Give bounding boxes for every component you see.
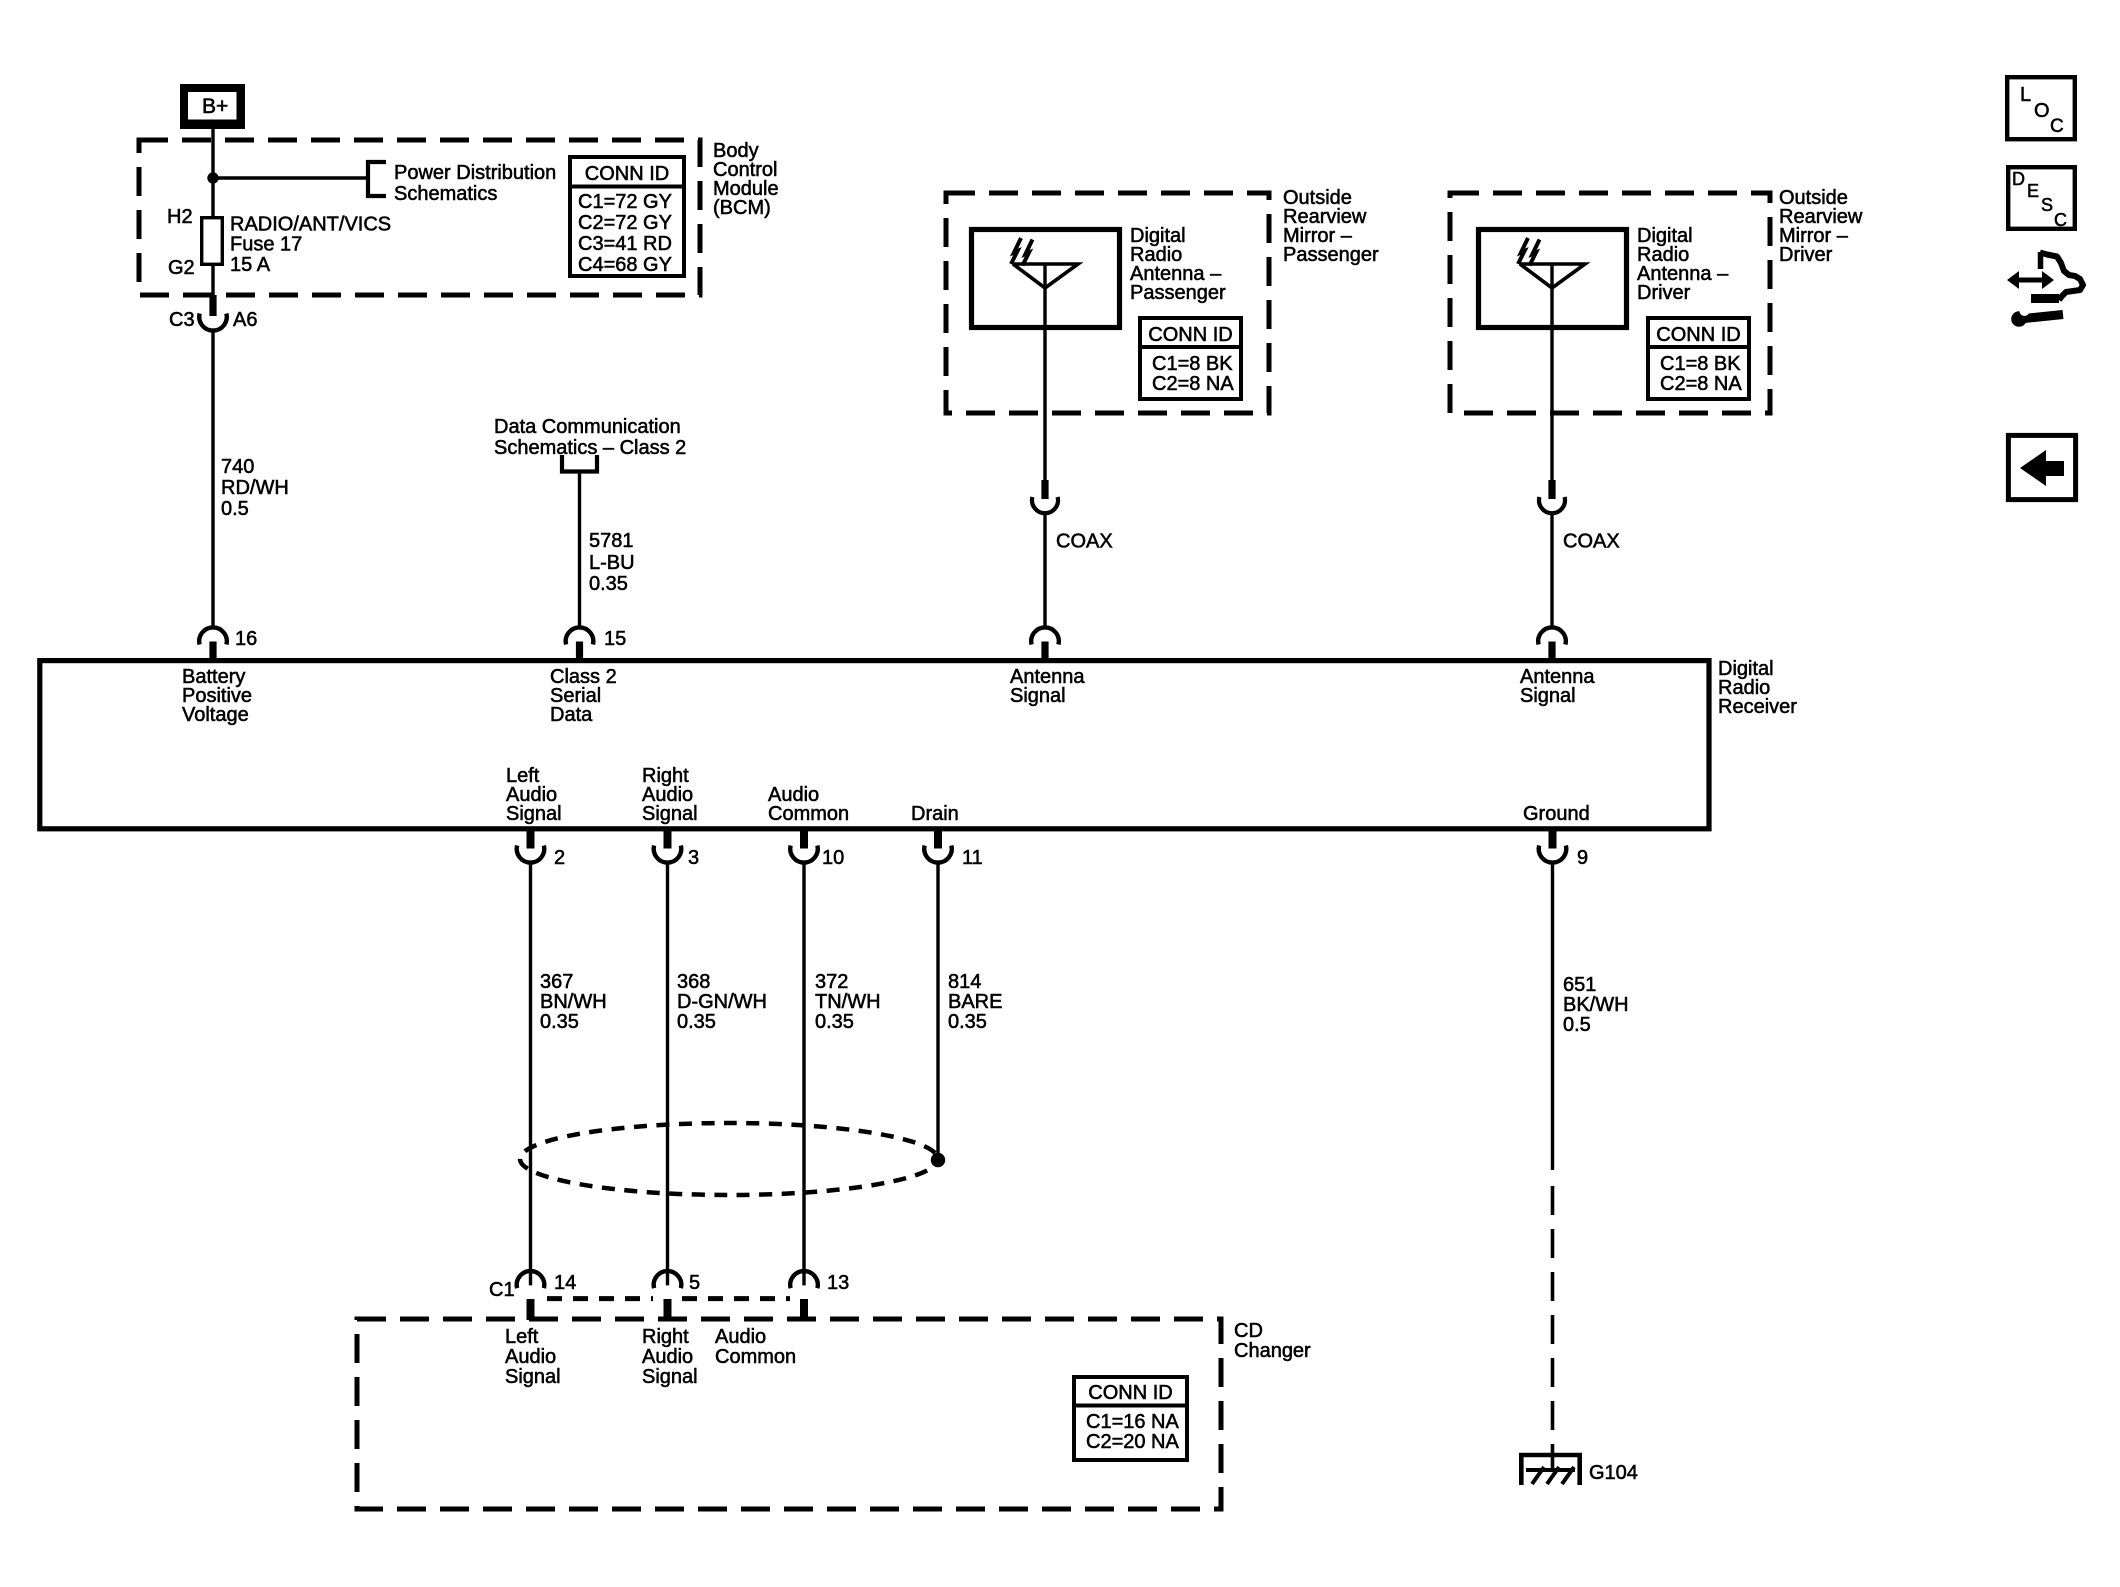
Antenna Signal pin at receiver (Passenger) bbox=[1031, 627, 1059, 644]
off-page reference bracket (Data Communication Schematics) bbox=[562, 455, 597, 472]
dashed box Digital Radio Antenna - Passenger (Outside Rearview Mirror) bbox=[946, 193, 1269, 413]
svg-text:S: S bbox=[2041, 195, 2053, 215]
pin 9 Ground bbox=[1549, 829, 1557, 849]
wire 740 RD/WH 0.5 bbox=[211, 331, 214, 628]
junction dot bbox=[207, 172, 218, 183]
antenna symbol Passenger bbox=[1043, 264, 1046, 480]
svg-text:C1: C1 bbox=[489, 1279, 515, 1301]
svg-text:C1=8 BKC2=8 NA: C1=8 BKC2=8 NA bbox=[1660, 353, 1742, 395]
ground symbol G104 bbox=[1519, 1453, 1582, 1458]
svg-text:3: 3 bbox=[688, 847, 699, 869]
connector pin 5 (C1) bbox=[654, 1271, 682, 1288]
back arrow icon bbox=[2008, 435, 2075, 499]
CONN ID table antenna Passenger bbox=[1140, 318, 1241, 399]
LOC navigation icon bbox=[2007, 77, 2075, 139]
svg-text:B+: B+ bbox=[202, 95, 228, 118]
wire 814 BARE 0.35 (drain) bbox=[936, 862, 939, 1160]
svg-text:CONN ID: CONN ID bbox=[1656, 324, 1740, 346]
svg-text:C: C bbox=[2050, 116, 2064, 137]
svg-text:O: O bbox=[2034, 100, 2050, 122]
svg-text:16: 16 bbox=[235, 628, 257, 650]
svg-text:Ground: Ground bbox=[1523, 803, 1590, 825]
dashed box Digital Radio Antenna - Driver (Outside Rearview Mirror) bbox=[1450, 193, 1770, 413]
svg-text:Drain: Drain bbox=[911, 803, 959, 825]
svg-text:11: 11 bbox=[962, 847, 983, 869]
svg-text:2: 2 bbox=[554, 847, 565, 869]
wire 367 BN/WH 0.35 bbox=[529, 862, 532, 1285]
pin 16 Battery Positive Voltage bbox=[199, 627, 227, 644]
svg-text:A6: A6 bbox=[233, 309, 257, 331]
fuse RADIO/ANT/VICS Fuse 17 15 A bbox=[202, 218, 223, 265]
svg-text:G104: G104 bbox=[1589, 1462, 1638, 1484]
CONN ID table CD Changer bbox=[1074, 1377, 1187, 1460]
shield ellipse (dashed) around audio wires bbox=[520, 1123, 938, 1195]
vehicle-with-arrow icon bbox=[2038, 252, 2044, 269]
svg-text:10: 10 bbox=[822, 847, 844, 869]
CONN ID table BCM bbox=[570, 157, 684, 276]
off-page reference bracket (Power Distribution Schematics) bbox=[368, 162, 386, 196]
pin 15 Class 2 Serial Data bbox=[566, 627, 594, 644]
wire 372 TN/WH 0.35 bbox=[802, 862, 805, 1285]
svg-text:C3: C3 bbox=[169, 309, 195, 331]
wire 368 D-GN/WH 0.35 bbox=[666, 862, 669, 1285]
Antenna Signal pin at receiver (Driver) bbox=[1538, 627, 1566, 644]
wire 5781 L-BU 0.35 bbox=[578, 474, 581, 628]
svg-text:CONN ID: CONN ID bbox=[1088, 1382, 1172, 1404]
wire into ground bbox=[1551, 1445, 1555, 1470]
svg-text:5: 5 bbox=[689, 1272, 700, 1294]
pin 11 Drain bbox=[934, 829, 942, 849]
antenna housing box Driver bbox=[1479, 230, 1627, 328]
antenna symbol Driver bbox=[1550, 264, 1553, 480]
drain junction dot on shield bbox=[931, 1153, 945, 1167]
CONN ID table antenna Driver bbox=[1648, 318, 1749, 399]
svg-text:E: E bbox=[2027, 181, 2039, 201]
wire B+ to BCM internal feed bbox=[211, 129, 214, 295]
connector C1 dashed tie line bbox=[547, 1296, 653, 1301]
Body Control Module (BCM) dashed box bbox=[139, 140, 700, 295]
connector C3/A6 at BCM output bbox=[209, 295, 216, 316]
svg-text:COAX: COAX bbox=[1056, 531, 1113, 553]
svg-text:C1=72 GYC2=72 GYC3=41 RDC4=68: C1=72 GYC2=72 GYC3=41 RDC4=68 GY bbox=[578, 191, 672, 276]
svg-text:CONN ID: CONN ID bbox=[1148, 324, 1232, 346]
in-line coax connector Driver bbox=[1548, 480, 1555, 499]
svg-text:5781L-BU0.35: 5781L-BU0.35 bbox=[589, 530, 635, 595]
svg-text:C: C bbox=[2054, 210, 2067, 230]
svg-text:C1=8 BKC2=8 NA: C1=8 BKC2=8 NA bbox=[1152, 353, 1234, 395]
svg-text:Data CommunicationSchematics –: Data CommunicationSchematics – Class 2 bbox=[494, 416, 686, 459]
connector pin 14 (C1) bbox=[517, 1271, 545, 1288]
DESC navigation icon bbox=[2008, 167, 2075, 229]
wire 651 dashed continuation bbox=[1551, 1186, 1555, 1445]
svg-text:D: D bbox=[2012, 169, 2025, 189]
svg-text:H2: H2 bbox=[167, 206, 193, 228]
connector pin 13 (C1) bbox=[790, 1271, 818, 1288]
svg-text:14: 14 bbox=[554, 1272, 576, 1294]
B+ battery positive terminal symbol bbox=[180, 84, 245, 129]
wire to Power Distribution off-page reference bbox=[213, 176, 366, 179]
svg-text:G2: G2 bbox=[168, 257, 195, 279]
svg-text:CONN ID: CONN ID bbox=[585, 163, 669, 185]
Digital Radio Receiver box bbox=[40, 661, 1709, 829]
svg-text:15: 15 bbox=[604, 628, 626, 650]
CD Changer dashed box bbox=[357, 1319, 1221, 1509]
svg-text:9: 9 bbox=[1577, 847, 1588, 869]
wire 651 BK/WH 0.5 bbox=[1551, 862, 1554, 1170]
svg-text:COAX: COAX bbox=[1563, 531, 1620, 553]
wrench icon bbox=[2024, 315, 2063, 319]
svg-text:C1=16 NAC2=20 NA: C1=16 NAC2=20 NA bbox=[1086, 1411, 1179, 1453]
svg-text:13: 13 bbox=[827, 1272, 849, 1294]
svg-text:L: L bbox=[2020, 84, 2031, 106]
antenna housing box Passenger bbox=[972, 230, 1120, 328]
pin 2 Left Audio Signal bbox=[527, 829, 535, 849]
svg-text:BatteryPositiveVoltage: BatteryPositiveVoltage bbox=[182, 666, 252, 726]
in-line coax connector Passenger bbox=[1041, 480, 1048, 499]
pin 10 Audio Common bbox=[800, 829, 808, 849]
pin 3 Right Audio Signal bbox=[664, 829, 672, 849]
